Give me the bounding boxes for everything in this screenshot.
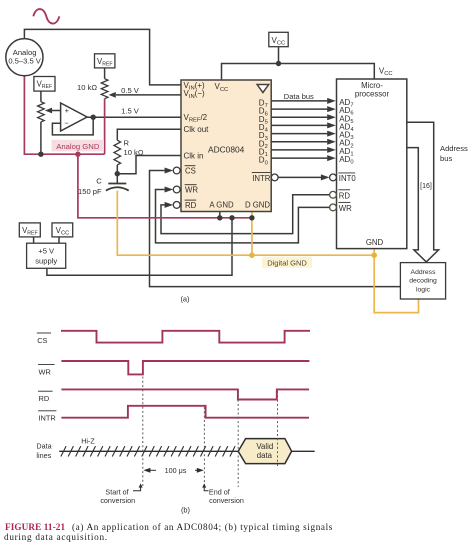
svg-text:decoding: decoding (409, 278, 437, 285)
svg-text:RD: RD (39, 394, 50, 403)
svg-text:logic: logic (416, 287, 431, 294)
svg-text:150 pF: 150 pF (78, 187, 102, 196)
svg-text:10 kΩ: 10 kΩ (77, 83, 97, 92)
svg-text:[16]: [16] (420, 183, 432, 190)
svg-text:CS: CS (37, 336, 47, 345)
svg-text:0.5 V: 0.5 V (121, 86, 140, 95)
svg-text:CS: CS (185, 167, 196, 176)
svg-text:WR: WR (339, 204, 352, 213)
svg-text:Hi-Z: Hi-Z (81, 437, 95, 446)
svg-text:D GND: D GND (245, 201, 270, 210)
svg-text:bus: bus (440, 154, 452, 163)
svg-text:supply: supply (35, 256, 57, 265)
svg-text:Digital GND: Digital GND (267, 259, 307, 268)
svg-text:+5 V: +5 V (38, 247, 55, 256)
svg-text:Address: Address (411, 269, 437, 276)
svg-text:10 kΩ: 10 kΩ (124, 148, 144, 157)
svg-text:conversion: conversion (209, 496, 244, 505)
svg-text:−: − (64, 119, 69, 128)
svg-text:Clk out: Clk out (184, 125, 210, 134)
svg-text:lines: lines (36, 451, 51, 460)
svg-text:R: R (124, 138, 130, 147)
svg-text:Data bus: Data bus (284, 92, 314, 101)
svg-text:WR: WR (39, 367, 51, 376)
svg-text:during data acquisition.: during data acquisition. (4, 532, 108, 542)
svg-text:C: C (96, 177, 102, 186)
svg-text:Data: Data (36, 441, 51, 450)
svg-text:(a) An application of an ADC08: (a) An application of an ADC0804; (b) ty… (72, 522, 333, 532)
svg-text:FIGURE 11-21: FIGURE 11-21 (5, 522, 65, 532)
svg-text:A GND: A GND (209, 201, 234, 210)
svg-text:Analog GND: Analog GND (56, 142, 100, 151)
svg-text:Clk in: Clk in (184, 151, 204, 160)
svg-text:(a): (a) (180, 295, 189, 304)
svg-text:INTR: INTR (39, 413, 56, 422)
svg-text:Address: Address (440, 144, 468, 153)
svg-text:WR: WR (185, 186, 198, 195)
svg-text:INTR: INTR (252, 174, 271, 183)
svg-text:data: data (257, 451, 273, 460)
svg-text:RD: RD (185, 201, 197, 210)
svg-text:RD: RD (339, 191, 351, 200)
svg-text:ADC0804: ADC0804 (208, 145, 245, 155)
svg-text:Valid: Valid (256, 442, 273, 451)
svg-text:+: + (65, 106, 70, 115)
svg-text:100 μs: 100 μs (165, 466, 187, 475)
svg-text:processor: processor (355, 89, 390, 98)
svg-text:GND: GND (366, 238, 384, 247)
svg-text:(b): (b) (181, 505, 190, 514)
svg-text:0.5–3.5 V: 0.5–3.5 V (8, 56, 41, 65)
svg-text:conversion: conversion (100, 496, 135, 505)
svg-text:INT0: INT0 (339, 174, 357, 183)
svg-text:1.5 V: 1.5 V (121, 106, 140, 115)
